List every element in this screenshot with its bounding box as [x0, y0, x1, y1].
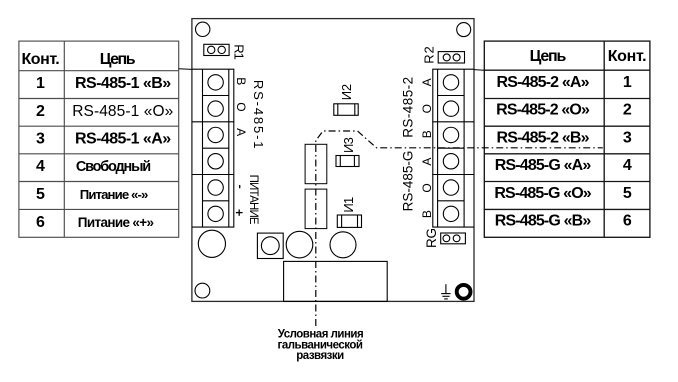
left terminal 6 hole: [208, 206, 223, 221]
DC-DC module lower: [305, 189, 327, 229]
svg-text:Свободный: Свободный: [76, 159, 150, 175]
svg-text:1: 1: [623, 74, 632, 91]
svg-text:RS-485-G «О»: RS-485-G «О»: [494, 185, 591, 202]
caption: galvanic isolation: [278, 328, 364, 362]
right terminal 6 hole: [443, 206, 458, 221]
right terminal block RS-485-2/RS-485-G: [432, 69, 474, 227]
svg-text:RS-485-2: RS-485-2: [401, 76, 416, 137]
wire from right terminal block to right table: [474, 69, 484, 72]
svg-text:6: 6: [623, 212, 632, 229]
svg-text:О: О: [420, 183, 434, 192]
right terminal 1 hole: [443, 75, 458, 90]
svg-text:В: В: [420, 210, 434, 218]
svg-text:RG: RG: [424, 228, 439, 248]
svg-text:ПИТАНИЕ: ПИТАНИЕ: [247, 175, 259, 225]
svg-text:RS-485-2 «В»: RS-485-2 «В»: [497, 129, 590, 146]
pin label minus: [239, 185, 241, 188]
plated mounting hole bottom-right: [457, 285, 471, 299]
mounting hole top-left: [196, 22, 210, 36]
wire from left table to terminal block: [179, 68, 192, 71]
jumper R2: [438, 52, 464, 63]
optocoupler И2: [334, 104, 358, 116]
jumper RG: [441, 233, 466, 244]
left terminal block RS-485-1: [192, 69, 234, 227]
right terminal 2 hole: [443, 101, 458, 116]
right table circuit names: [494, 74, 591, 230]
jumper R1: [204, 44, 229, 55]
svg-text:4: 4: [36, 158, 45, 175]
left terminal 4 hole: [208, 154, 223, 169]
left pinout table: [19, 41, 179, 237]
transformer footprint right: [330, 232, 356, 258]
svg-text:5: 5: [623, 185, 632, 202]
svg-text:Питание «+»: Питание «+»: [78, 215, 154, 230]
right pinout table: [484, 41, 650, 237]
left terminal 3 hole: [208, 127, 223, 142]
svg-text:Цепь: Цепь: [100, 51, 136, 68]
svg-text:Питание «-»: Питание «-»: [80, 187, 148, 202]
left table header text: [21, 51, 135, 68]
svg-text:1: 1: [36, 75, 45, 92]
board outline: [192, 19, 474, 302]
left table circuit names: [72, 75, 173, 230]
svg-text:О: О: [234, 102, 248, 111]
svg-text:А: А: [420, 158, 434, 166]
svg-text:И2: И2: [339, 84, 354, 100]
galvanic isolation dashed line: [316, 131, 603, 326]
svg-text:RS-485-1 «О»: RS-485-1 «О»: [72, 103, 173, 120]
transformer footprint middle: [286, 231, 313, 258]
ground symbol: [441, 284, 450, 299]
right terminal 5 hole: [443, 180, 458, 195]
svg-text:Конт.: Конт.: [608, 48, 647, 65]
svg-text:6: 6: [36, 214, 45, 231]
svg-text:В: В: [234, 77, 248, 85]
svg-text:развязки: развязки: [296, 350, 344, 362]
svg-text:RS-485-G «В»: RS-485-G «В»: [495, 212, 592, 229]
svg-text:А: А: [420, 78, 434, 86]
capacitor footprint square: [257, 233, 283, 258]
right table pin numbers: [623, 74, 632, 230]
svg-text:Конт.: Конт.: [21, 51, 59, 68]
svg-text:А: А: [234, 128, 248, 136]
left table pin numbers: [36, 75, 45, 231]
svg-text:RS-485-G: RS-485-G: [401, 151, 416, 212]
svg-text:2: 2: [623, 102, 632, 119]
svg-text:R1: R1: [231, 44, 246, 59]
left terminal 5 hole: [208, 180, 223, 195]
svg-text:RS-485-1: RS-485-1: [251, 80, 266, 150]
svg-text:И1: И1: [341, 197, 356, 213]
svg-text:В: В: [420, 130, 434, 138]
svg-text:R2: R2: [422, 45, 437, 63]
svg-text:И3: И3: [341, 137, 356, 153]
svg-text:3: 3: [36, 131, 45, 148]
svg-text:2: 2: [36, 103, 45, 120]
svg-text:RS-485-2 «О»: RS-485-2 «О»: [496, 102, 590, 119]
right terminal 3 hole: [443, 127, 458, 142]
mounting hole top-right: [457, 23, 471, 37]
optocoupler И3: [336, 156, 359, 167]
svg-text:RS-485-1 «В»: RS-485-1 «В»: [75, 75, 171, 92]
svg-text:5: 5: [36, 186, 45, 203]
right table header text: [530, 48, 647, 65]
mounting hole bottom-left: [195, 283, 210, 298]
bottom connector footprint: [284, 261, 388, 301]
left terminal 2 hole: [208, 101, 223, 116]
optocoupler И1: [337, 215, 361, 227]
svg-text:RS-485-1 «А»: RS-485-1 «А»: [75, 131, 171, 148]
DC-DC module upper: [305, 144, 327, 183]
svg-text:RS-485-2 «А»: RS-485-2 «А»: [497, 74, 590, 91]
svg-text:О: О: [420, 104, 434, 113]
svg-text:4: 4: [623, 157, 632, 174]
transformer footprint left: [198, 230, 225, 257]
svg-text:3: 3: [623, 129, 632, 146]
pin label plus: [236, 210, 243, 216]
right terminal 4 hole: [443, 154, 458, 169]
svg-text:Цепь: Цепь: [530, 48, 567, 65]
left terminal 1 hole: [208, 75, 223, 90]
svg-text:RS-485-G «А»: RS-485-G «А»: [495, 157, 592, 174]
